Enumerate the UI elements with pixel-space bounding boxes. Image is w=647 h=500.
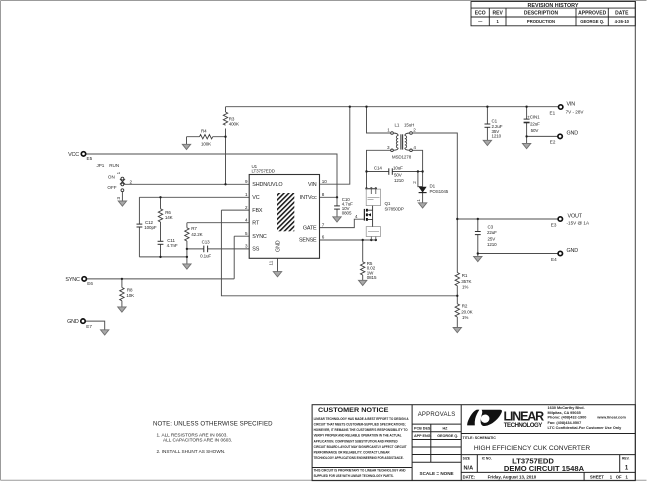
svg-text:REV.: REV. <box>622 456 630 460</box>
svg-text:4: 4 <box>413 145 416 150</box>
svg-text:SCALE = NONE: SCALE = NONE <box>420 471 454 476</box>
svg-text:SYNC: SYNC <box>252 234 267 240</box>
svg-text:50V: 50V <box>531 128 539 133</box>
svg-text:SUPPLIED FOR USE WITH LINEAR T: SUPPLIED FOR USE WITH LINEAR TECHNOLOGY … <box>314 474 394 478</box>
svg-text:R1: R1 <box>462 273 468 278</box>
svg-text:14K: 14K <box>165 215 173 220</box>
svg-text:E7: E7 <box>86 324 92 329</box>
svg-text:MSD1278: MSD1278 <box>392 155 412 160</box>
svg-text:100K: 100K <box>201 142 211 147</box>
svg-text:1: 1 <box>245 192 248 197</box>
svg-text:1210: 1210 <box>492 133 502 138</box>
svg-text:42.2K: 42.2K <box>191 232 202 237</box>
svg-text:APP ENG.: APP ENG. <box>414 434 432 438</box>
svg-text:NOTE: UNLESS OTHERWISE SPECIFI: NOTE: UNLESS OTHERWISE SPECIFIED <box>153 420 273 427</box>
svg-text:-15V @ 1A: -15V @ 1A <box>567 221 590 226</box>
svg-text:Phone: (408)432-1900: Phone: (408)432-1900 <box>548 416 587 420</box>
svg-text:OF: OF <box>616 474 622 479</box>
svg-text:4: 4 <box>245 217 248 222</box>
svg-text:REVISION HISTORY: REVISION HISTORY <box>528 3 579 9</box>
svg-text:10uF: 10uF <box>393 165 403 170</box>
svg-text:RUN: RUN <box>109 163 119 168</box>
svg-text:C14: C14 <box>374 165 383 170</box>
svg-text:20.0K: 20.0K <box>461 309 472 314</box>
svg-text:GEORGE Q.: GEORGE Q. <box>437 434 458 438</box>
svg-text:N/A: N/A <box>464 466 474 472</box>
svg-text:IC NO.: IC NO. <box>482 456 492 460</box>
svg-text:TECHNOLOGY APPLICATIONS ENGINE: TECHNOLOGY APPLICATIONS ENGINEERING FOR … <box>314 456 404 460</box>
svg-text:L1: L1 <box>395 122 400 127</box>
svg-text:PERFORMANCE OR RELIABILITY.: PERFORMANCE OR RELIABILITY. CONTACT LINE… <box>314 451 390 455</box>
svg-text:10K: 10K <box>126 293 134 298</box>
svg-text:E4: E4 <box>551 257 557 262</box>
svg-text:VC: VC <box>252 195 259 201</box>
svg-text:1210: 1210 <box>394 178 404 183</box>
svg-text:4: 4 <box>355 214 358 219</box>
svg-text:LT3757EDD: LT3757EDD <box>252 169 276 174</box>
svg-text:SHEET: SHEET <box>590 474 604 479</box>
svg-text:E3: E3 <box>551 222 557 227</box>
svg-text:3: 3 <box>245 244 248 249</box>
svg-text:15uH: 15uH <box>404 122 414 127</box>
svg-text:JP1: JP1 <box>96 163 104 168</box>
svg-text:SYNC: SYNC <box>65 277 80 283</box>
svg-text:SIZE: SIZE <box>463 456 471 460</box>
svg-text:TECHNOLOGY: TECHNOLOGY <box>504 422 543 429</box>
svg-text:HZ: HZ <box>443 426 449 430</box>
svg-text:LINEAR TECHNOLOGY HAS MADE A B: LINEAR TECHNOLOGY HAS MADE A BEST EFFORT… <box>314 417 409 421</box>
svg-text:CUSTOMER NOTICE: CUSTOMER NOTICE <box>318 407 389 414</box>
svg-text:0815: 0815 <box>367 275 377 280</box>
svg-text:DEMO CIRCUIT 1548A: DEMO CIRCUIT 1548A <box>504 464 585 473</box>
svg-text:10: 10 <box>322 179 328 184</box>
svg-text:ECO: ECO <box>475 11 486 17</box>
svg-text:2: 2 <box>412 181 417 184</box>
svg-text:100pF: 100pF <box>144 225 157 230</box>
svg-text:APPROVALS: APPROVALS <box>418 412 456 418</box>
svg-text:CIRCUIT BOARD LAYOUT MAY SIGNI: CIRCUIT BOARD LAYOUT MAY SIGNIFICANTLY A… <box>314 445 408 449</box>
svg-text:REV: REV <box>493 11 504 17</box>
svg-text:+CIN1: +CIN1 <box>527 115 540 120</box>
svg-text:THIS CIRCUIT IS PROPRIETARY TO: THIS CIRCUIT IS PROPRIETARY TO LINEAR TE… <box>314 469 406 473</box>
svg-text:CIRCUIT THAT MEETS CUSTOMER-SU: CIRCUIT THAT MEETS CUSTOMER-SUPPLIED SPE… <box>314 423 406 427</box>
svg-text:POS1045: POS1045 <box>430 189 449 194</box>
svg-text:E2: E2 <box>550 140 556 145</box>
svg-text:Friday, August 13, 2010: Friday, August 13, 2010 <box>488 474 537 479</box>
svg-text:GEORGE Q.: GEORGE Q. <box>580 19 604 24</box>
svg-text:22uF: 22uF <box>487 230 497 235</box>
svg-text:OFF: OFF <box>107 185 116 190</box>
svg-text:GND: GND <box>276 240 282 252</box>
svg-text:APPROVED: APPROVED <box>578 11 606 17</box>
svg-text:SENSE: SENSE <box>299 238 317 244</box>
svg-text:TITLE: SCHEMATIC: TITLE: SCHEMATIC <box>463 436 497 440</box>
svg-text:1%: 1% <box>462 315 468 320</box>
svg-text:R2: R2 <box>462 303 468 308</box>
svg-text:VOUT: VOUT <box>568 213 583 219</box>
svg-text:4-26-10: 4-26-10 <box>615 19 630 24</box>
svg-text:ON: ON <box>108 175 115 180</box>
svg-text:Q1: Q1 <box>385 201 391 206</box>
svg-text:2. INSTALL SHUNT AS SHOWN.: 2. INSTALL SHUNT AS SHOWN. <box>157 449 226 454</box>
svg-text:INTVcc: INTVcc <box>300 195 317 201</box>
svg-text:7: 7 <box>322 222 325 227</box>
svg-text:3: 3 <box>116 197 121 200</box>
svg-text:9: 9 <box>245 179 248 184</box>
svg-text:E1: E1 <box>550 110 556 115</box>
svg-text:1: 1 <box>387 128 390 133</box>
svg-text:PCB DES.: PCB DES. <box>414 426 431 430</box>
svg-text:1: 1 <box>116 171 121 174</box>
svg-text:HIGH EFFICIENCY CUK CONVERTER: HIGH EFFICIENCY CUK CONVERTER <box>474 445 590 452</box>
svg-text:1210: 1210 <box>487 242 497 247</box>
svg-text:GATE: GATE <box>303 225 317 231</box>
svg-text:1: 1 <box>416 199 421 202</box>
svg-text:R7: R7 <box>191 226 197 231</box>
svg-text:SS: SS <box>252 247 259 253</box>
svg-text:R4: R4 <box>201 129 207 134</box>
svg-text:LTC Confidential-For Customer: LTC Confidential-For Customer Use Only <box>548 426 623 430</box>
svg-text:22uF: 22uF <box>530 122 540 127</box>
svg-text:E5: E5 <box>87 156 93 161</box>
svg-text:0.1uF: 0.1uF <box>200 253 211 258</box>
svg-text:www.linear.com: www.linear.com <box>596 416 626 420</box>
svg-text:0805: 0805 <box>342 211 352 216</box>
svg-text:ALL CAPACITORS ARE IN 0603.: ALL CAPACITORS ARE IN 0603. <box>163 438 232 443</box>
svg-text:FBX: FBX <box>252 208 263 214</box>
svg-text:VIN: VIN <box>567 101 576 107</box>
svg-text:PRODUCTION: PRODUCTION <box>527 19 555 24</box>
svg-text:50V: 50V <box>394 173 402 178</box>
svg-text:D1: D1 <box>430 183 436 188</box>
svg-text:GND: GND <box>567 131 579 137</box>
svg-text:2: 2 <box>413 128 416 133</box>
svg-text:5: 5 <box>245 231 248 236</box>
svg-text:Si7850DP: Si7850DP <box>385 206 404 211</box>
svg-text:R8: R8 <box>127 287 133 292</box>
svg-text:SHDN/UVLO: SHDN/UVLO <box>252 182 282 188</box>
svg-text:C1: C1 <box>492 119 498 124</box>
svg-text:8: 8 <box>322 192 325 197</box>
svg-text:DATE:: DATE: <box>463 474 475 479</box>
svg-text:357K: 357K <box>461 279 471 284</box>
svg-text:6: 6 <box>322 235 325 240</box>
svg-text:C13: C13 <box>202 239 211 244</box>
svg-text:DESCRIPTION: DESCRIPTION <box>524 11 559 17</box>
svg-text:HOWEVER, IT REMAINS THE CUSTOM: HOWEVER, IT REMAINS THE CUSTOMER'S RESPO… <box>314 428 408 432</box>
svg-text:E6: E6 <box>87 281 93 286</box>
svg-text:1630 McCarthy Blvd.: 1630 McCarthy Blvd. <box>548 406 585 410</box>
svg-text:1%: 1% <box>462 284 468 289</box>
svg-text:C3: C3 <box>488 224 494 229</box>
svg-text:Fax: (408)434-0507: Fax: (408)434-0507 <box>548 421 582 425</box>
svg-text:VIN: VIN <box>308 182 317 188</box>
svg-text:2: 2 <box>245 205 248 210</box>
svg-text:APPLICATION. COMPONENT SUBSTI: APPLICATION. COMPONENT SUBSTITUTION AND … <box>314 439 398 443</box>
svg-text:Milpitas, CA 95035: Milpitas, CA 95035 <box>548 411 581 415</box>
svg-text:RT: RT <box>252 220 260 226</box>
svg-text:4.7nF: 4.7nF <box>167 243 178 248</box>
svg-text:3: 3 <box>387 145 390 150</box>
svg-text:VERIFY PROPER AND RELIABLE OPE: VERIFY PROPER AND RELIABLE OPERATION IN … <box>314 434 403 438</box>
svg-text:DATE: DATE <box>615 11 629 17</box>
svg-text:7V - 28V: 7V - 28V <box>566 109 585 114</box>
svg-text:2: 2 <box>130 180 133 185</box>
svg-text:GND: GND <box>67 319 79 325</box>
svg-text:11: 11 <box>269 260 274 265</box>
svg-text:VCC: VCC <box>68 152 79 158</box>
svg-text:400K: 400K <box>229 122 239 127</box>
svg-text:GND: GND <box>567 248 579 254</box>
